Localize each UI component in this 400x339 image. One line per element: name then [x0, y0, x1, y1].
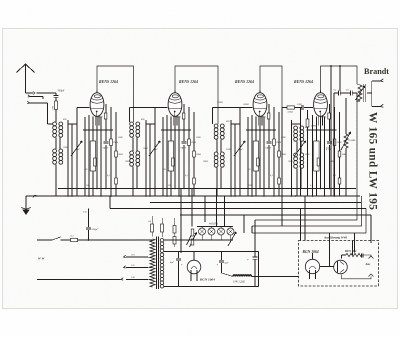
- coil IF2 pair: [214, 124, 218, 128]
- capacitor mains 500pF: [88, 209, 90, 228]
- wires stage 1 left: [67, 120, 69, 196]
- wire to box: [259, 276, 299, 278]
- trimmer arrows heater: [187, 231, 194, 246]
- wire drop d: [243, 215, 245, 233]
- wire box output: [363, 255, 371, 257]
- mains tap 125: [124, 266, 126, 268]
- wires stage 4 left: [291, 120, 293, 196]
- mains line top: [37, 239, 52, 241]
- potentiometer 0,5M: [345, 98, 347, 134]
- wire lamp row: [197, 226, 233, 228]
- tube V1 RENS 1264: [90, 93, 104, 117]
- wire rail right 2: [252, 196, 362, 226]
- bus upper: [58, 188, 356, 190]
- coil input V4b pair: [294, 153, 298, 157]
- capacitor 8uF b: [350, 91, 352, 96]
- resistor cathode stage 1: [90, 141, 95, 171]
- wire antenna to input: [26, 92, 34, 94]
- crease line: [356, 112, 358, 212]
- capacitor block a: [178, 252, 180, 259]
- mains tap 110: [124, 255, 126, 257]
- jack Aus bottom: [369, 274, 374, 277]
- resistor box a: [151, 224, 154, 232]
- coil L1 pair: [53, 122, 57, 126]
- lamp 1: [199, 228, 206, 235]
- grid stub stage 1: [77, 107, 90, 109]
- coil L2 pair: [53, 149, 57, 153]
- resistor screen stage 1: [104, 113, 107, 119]
- grid wire stage 3: [213, 107, 253, 109]
- wire box grid feed: [329, 233, 331, 267]
- wire screen V4: [330, 66, 332, 196]
- wires stage 3 left: [230, 120, 232, 196]
- trimmer arrow stage 1: [71, 141, 82, 156]
- trimmer arrow stage 4: [295, 141, 306, 156]
- wire grid divider V4: [281, 108, 283, 227]
- resistor cathode stage 2: [168, 141, 173, 171]
- jack Aus top: [369, 256, 374, 259]
- resistor box W48: [352, 241, 354, 256]
- resistor grid stage 1: [110, 107, 112, 139]
- bus chassis: [26, 195, 360, 197]
- capacitor W48 out: [361, 253, 363, 257]
- coil IF2b pair: [214, 152, 218, 156]
- lamp 2: [208, 228, 215, 235]
- wire box internal: [320, 266, 334, 268]
- resistor 50000 stage4: [307, 110, 309, 119]
- wire anode V1 loop: [97, 66, 134, 122]
- bus mid: [110, 208, 366, 210]
- junction dots stage 2: [145, 195, 147, 197]
- wires stage 2 right: [193, 112, 195, 196]
- stub b stage 1: [83, 129, 113, 131]
- trimmer arrow stage 3: [234, 141, 245, 156]
- resistor box b: [161, 224, 164, 232]
- wire rail right 4: [370, 215, 372, 243]
- bus b2: [150, 202, 361, 204]
- wire drop a: [254, 220, 256, 252]
- input jack 2: [27, 101, 29, 103]
- wires stage 1 right: [115, 112, 117, 196]
- mains line bottom: [37, 279, 121, 281]
- antenna: [17, 64, 26, 73]
- speaker bracket: [371, 81, 373, 106]
- speaker jack bottom: [380, 104, 383, 107]
- tube V2 RENS 1264: [168, 93, 182, 117]
- transformer secondary: [160, 239, 164, 243]
- stub a stage 4: [292, 123, 301, 125]
- junction dots stage 1: [67, 195, 69, 197]
- mains tap 150: [126, 279, 148, 281]
- wires stage 2 tube pins: [166, 115, 168, 196]
- junction dots stage 4: [291, 195, 293, 197]
- switch arrow lamps: [228, 232, 236, 246]
- capacitor 8uF a: [338, 91, 340, 96]
- grid wire stage 2: [130, 107, 168, 109]
- wire drop box feed b: [300, 209, 302, 241]
- stub b stage 3: [246, 129, 276, 131]
- transformer core: [155, 237, 157, 290]
- wire heater top: [151, 216, 153, 224]
- stub b stage 2: [161, 129, 191, 131]
- paper texture: [0, 0, 1, 1]
- wires stage 2 left: [145, 120, 147, 196]
- lamp stubs bottom: [201, 235, 203, 240]
- wire HT top: [164, 251, 259, 253]
- fuse 0,3A: [71, 238, 78, 241]
- bus tick: [33, 195, 37, 197]
- transformer mains primary: [150, 239, 155, 287]
- resistor screen stage 4: [328, 113, 331, 119]
- resistor grid stage 4: [334, 107, 336, 139]
- wires stage 4 tube pins: [312, 115, 314, 196]
- bus b3: [180, 214, 371, 216]
- wire antenna chain: [55, 93, 57, 96]
- resistor cathode stage 3: [253, 141, 258, 171]
- speaker connect: [367, 92, 372, 94]
- capacitor stage 4: [329, 104, 331, 141]
- capacitor stage 1: [105, 104, 107, 141]
- triode tube box: [334, 260, 348, 274]
- wire anode V2 loop: [175, 66, 218, 124]
- capacitor block b: [221, 252, 223, 261]
- junction dots stage 3: [230, 195, 232, 197]
- wire box bottom loop: [342, 275, 372, 279]
- stub b stage 4: [307, 129, 337, 131]
- input jack 1b: [28, 95, 30, 97]
- capacitor block c: [254, 252, 256, 258]
- wire anode V4 loop: [321, 66, 358, 92]
- wires stage 1 tube pins: [88, 115, 90, 196]
- stub a stage 1: [68, 123, 77, 125]
- resistor screen stage 3: [267, 113, 270, 119]
- wire rail right 1: [255, 93, 357, 220]
- wires stage 3 right: [278, 112, 280, 196]
- box Ausfuehrung W48: [299, 241, 379, 287]
- capacitor stage 3: [268, 104, 270, 141]
- rectifier tube box: [305, 259, 319, 273]
- coil IF1 pair: [130, 122, 134, 126]
- wires stage 4 right: [339, 112, 341, 196]
- stub a stage 3: [231, 123, 240, 125]
- switch mains: [52, 237, 61, 240]
- wire box feed: [354, 233, 356, 253]
- wire triode top: [342, 254, 347, 256]
- wire HT bottom: [164, 286, 259, 288]
- trimmer arrow stage 2: [149, 141, 160, 156]
- wire anode V3 loop: [260, 66, 282, 108]
- wires stage 3 tube pins: [251, 115, 253, 196]
- rectifier tube RGN 1064: [187, 260, 201, 274]
- coil input V4 pair: [294, 126, 298, 130]
- resistor grid stage 3: [273, 107, 275, 139]
- resistor field coil: [222, 273, 234, 277]
- capacitor stage 2: [183, 104, 185, 141]
- resistor cathode stage 4: [314, 141, 319, 171]
- bus corner left: [109, 196, 111, 209]
- wire heater line: [164, 239, 233, 241]
- resistor 100: [55, 101, 58, 110]
- arrow output pot: [356, 86, 365, 100]
- wire drop b: [251, 226, 253, 233]
- resistor screen stage 2: [182, 113, 185, 119]
- tube V3 RENS 1264: [253, 93, 267, 117]
- resistor grid stage 2: [188, 107, 190, 139]
- resistor coupling 50000: [282, 107, 287, 109]
- tube V4 RENS 1264: [314, 93, 328, 117]
- stub a stage 2: [146, 123, 155, 125]
- coil IF1b pair: [130, 151, 134, 155]
- wire decoupling: [339, 66, 341, 91]
- speaker jack top: [380, 79, 383, 82]
- wire drop box feed a: [304, 196, 306, 241]
- lamp 4: [227, 228, 234, 235]
- ground: [25, 196, 27, 210]
- transformer output: [358, 85, 362, 101]
- wire rail right 3: [252, 209, 366, 234]
- resistor pair stacked: [173, 226, 176, 234]
- capacitor coupling: [295, 107, 303, 109]
- wire drops to bottom: [180, 189, 182, 254]
- lamp 3: [218, 228, 225, 235]
